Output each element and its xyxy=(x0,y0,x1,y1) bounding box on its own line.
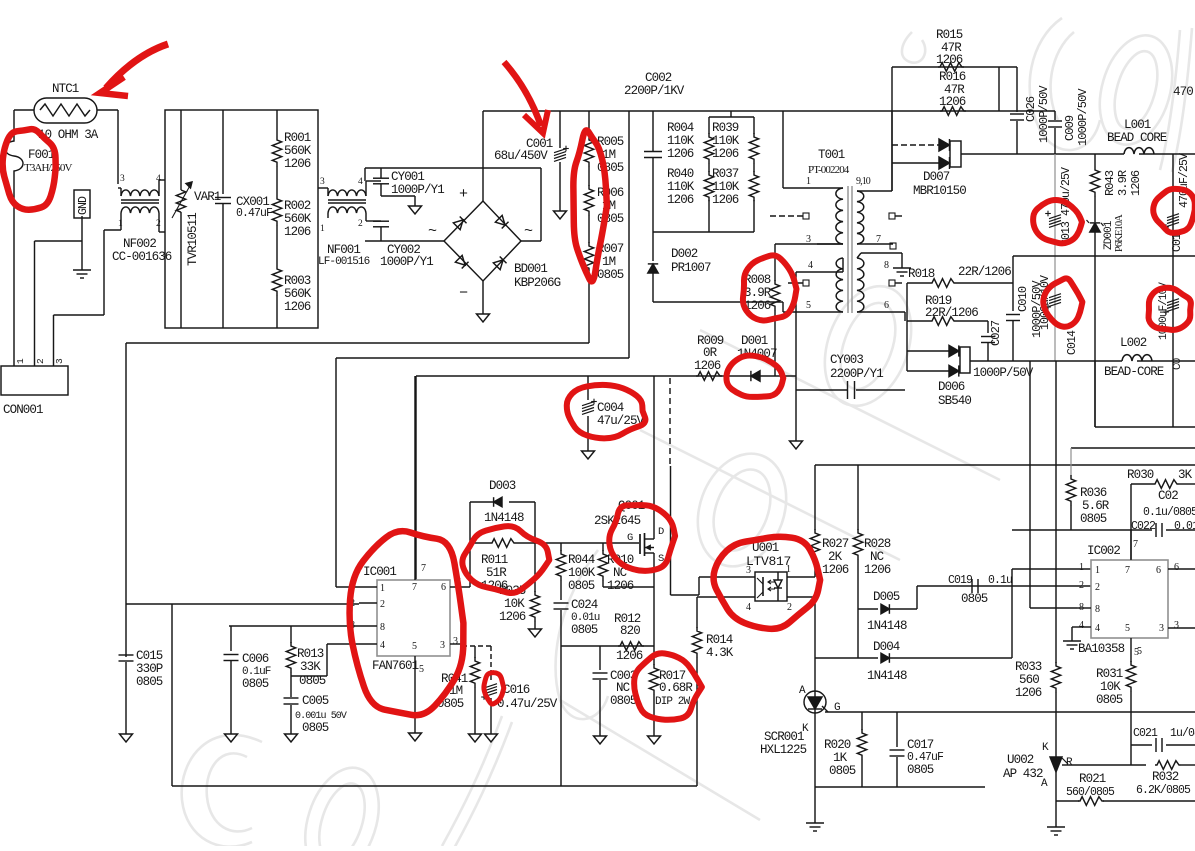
svg-text:CY003: CY003 xyxy=(830,353,863,367)
snubber rail lower xyxy=(891,67,893,191)
svg-text:0.1u: 0.1u xyxy=(988,574,1012,587)
svg-text:C014: C014 xyxy=(1066,330,1079,355)
svg-text:820: 820 xyxy=(620,624,640,638)
svg-text:R018: R018 xyxy=(908,267,935,281)
connector CON001 xyxy=(1,366,68,395)
svg-text:CON001: CON001 xyxy=(3,403,43,417)
capacitor C014 xyxy=(1049,294,1061,298)
svg-text:R014: R014 xyxy=(706,633,733,647)
svg-text:C0: C0 xyxy=(1172,358,1184,370)
svg-text:C016: C016 xyxy=(503,683,530,697)
row C022 xyxy=(1012,529,1131,531)
svg-text:C024: C024 xyxy=(571,598,598,612)
svg-text:R013: R013 xyxy=(297,647,324,661)
col 1056 xyxy=(1055,361,1057,663)
svg-text:560K: 560K xyxy=(284,287,312,301)
capacitor C026 xyxy=(1016,67,1018,112)
capacitor C024 xyxy=(554,602,569,604)
svg-text:PR1007: PR1007 xyxy=(671,261,711,275)
svg-text:C026: C026 xyxy=(1024,96,1038,122)
bridge rectifier BD001 xyxy=(444,201,521,281)
gate row xyxy=(561,542,639,544)
svg-text:1K: 1K xyxy=(833,751,848,765)
svg-text:SB540: SB540 xyxy=(938,394,971,408)
svg-text:NC: NC xyxy=(870,550,884,564)
svg-text:0805: 0805 xyxy=(136,675,163,689)
wire ref xyxy=(1069,764,1146,766)
svg-text:1206: 1206 xyxy=(667,147,694,161)
AC rail top xyxy=(365,167,541,169)
svg-text:MBR10150: MBR10150 xyxy=(913,184,966,198)
red circle R008 xyxy=(743,255,797,320)
svg-text:1206: 1206 xyxy=(1015,686,1042,700)
resistor R037 xyxy=(753,168,755,172)
net GND label xyxy=(74,190,90,218)
ground SCR xyxy=(806,822,824,824)
svg-text:BEAD CORE: BEAD CORE xyxy=(1107,131,1167,145)
secondary gnd rail piece xyxy=(815,786,985,788)
wire NF002 pin2 to box xyxy=(158,222,160,232)
svg-text:NC: NC xyxy=(616,681,630,695)
resistor R013 xyxy=(290,626,292,643)
svg-text:2200P/Y1: 2200P/Y1 xyxy=(830,367,883,381)
svg-text:1000P/50V: 1000P/50V xyxy=(973,366,1034,380)
resistor R035 xyxy=(534,543,536,592)
wire pin3 xyxy=(775,243,843,245)
red circle C014 xyxy=(1043,278,1082,326)
AC rail right vertical xyxy=(540,168,542,241)
snubber rail upper xyxy=(892,66,999,68)
svg-text:0.01: 0.01 xyxy=(1174,520,1195,533)
svg-text:1206: 1206 xyxy=(712,193,739,207)
svg-text:1206: 1206 xyxy=(284,300,311,314)
red circle R017 xyxy=(634,653,702,719)
svg-text:R006: R006 xyxy=(597,186,624,200)
startup line from bus xyxy=(628,111,630,358)
wire NF002 pin4 to box xyxy=(158,180,160,188)
resistor R020 xyxy=(861,712,863,730)
svg-text:R039: R039 xyxy=(712,121,739,135)
red circle F001 xyxy=(3,129,56,210)
svg-text:0.1u/0805: 0.1u/0805 xyxy=(1143,506,1195,519)
red circle R011 xyxy=(462,526,549,593)
svg-text:560K: 560K xyxy=(284,212,312,226)
svg-text:R027: R027 xyxy=(822,537,849,551)
svg-text:NF002: NF002 xyxy=(123,237,156,251)
varistor VAR1 xyxy=(180,110,182,190)
svg-text:C006: C006 xyxy=(242,652,269,666)
svg-text:~: ~ xyxy=(524,223,533,240)
wire NF001 pin4 to cap rail xyxy=(365,181,367,188)
wire NF002 pin1 down xyxy=(120,222,122,230)
svg-text:1206: 1206 xyxy=(667,193,694,207)
svg-text:0805: 0805 xyxy=(597,268,624,282)
dashed stub xyxy=(669,378,671,466)
svg-text:D007: D007 xyxy=(923,170,950,184)
svg-text:HXL1225: HXL1225 xyxy=(760,743,807,757)
capacitor C004 xyxy=(587,376,589,400)
resistor R004 xyxy=(708,117,710,134)
diode D002 xyxy=(652,232,654,261)
resistor R008 xyxy=(774,244,776,281)
resistor R044 xyxy=(560,543,562,551)
svg-text:0R: 0R xyxy=(703,346,718,360)
capacitor CY001 xyxy=(380,168,382,178)
svg-text:L002: L002 xyxy=(1120,336,1147,350)
row 256 xyxy=(1013,255,1195,257)
red blob IC001 xyxy=(350,531,464,715)
resistor R041 xyxy=(474,646,476,658)
red circle C012 xyxy=(1148,288,1190,330)
svg-text:BA10358: BA10358 xyxy=(1078,642,1125,656)
svg-text:D004: D004 xyxy=(873,640,900,654)
svg-text:KBP206G: KBP206G xyxy=(514,276,561,290)
svg-text:R040: R040 xyxy=(667,167,694,181)
line filter NF002 xyxy=(121,190,159,196)
capacitor C015 xyxy=(125,654,127,657)
svg-text:R011: R011 xyxy=(481,553,508,567)
resistor R039 xyxy=(753,117,755,134)
clamp network rails xyxy=(709,116,754,118)
svg-text:1206: 1206 xyxy=(1129,170,1143,196)
svg-text:110K: 110K xyxy=(712,180,740,194)
IC001 pin stubs xyxy=(359,586,377,588)
svg-text:C027: C027 xyxy=(989,320,1003,346)
EMI filter box xyxy=(165,110,318,328)
svg-text:1206: 1206 xyxy=(284,157,311,171)
resistor R005 xyxy=(588,111,590,137)
svg-text:G: G xyxy=(627,532,633,544)
svg-text:2K: 2K xyxy=(828,550,843,564)
zener ZD001 xyxy=(1090,223,1100,232)
svg-text:AP 432: AP 432 xyxy=(1003,767,1043,781)
svg-text:SCR001: SCR001 xyxy=(764,730,804,744)
resistor R011 xyxy=(470,542,490,544)
svg-text:330P: 330P xyxy=(136,662,163,676)
capacitor C013 xyxy=(1054,154,1056,361)
wire to IC001 pin1 xyxy=(336,357,629,359)
svg-text:T001: T001 xyxy=(818,148,845,162)
svg-text:D002: D002 xyxy=(671,247,698,261)
svg-text:1000P/Y1: 1000P/Y1 xyxy=(391,183,444,197)
svg-text:560: 560 xyxy=(1019,673,1039,687)
svg-text:0805: 0805 xyxy=(829,764,856,778)
svg-text:51R: 51R xyxy=(486,566,507,580)
svg-text:470: 470 xyxy=(1173,85,1193,99)
capacitor C010 xyxy=(1012,283,1014,311)
svg-text:1000P/Y1: 1000P/Y1 xyxy=(380,255,433,269)
svg-text:9,10: 9,10 xyxy=(856,176,871,187)
wire pin4 ground column xyxy=(795,272,797,441)
svg-text:R016: R016 xyxy=(939,70,966,84)
svg-text:+: + xyxy=(459,186,468,203)
svg-text:C02: C02 xyxy=(1158,489,1178,503)
feedback row xyxy=(815,464,1195,466)
svg-text:110K: 110K xyxy=(667,180,695,194)
svg-text:0805: 0805 xyxy=(571,623,598,637)
svg-text:R003: R003 xyxy=(284,274,311,288)
red circle U001 xyxy=(714,537,821,629)
svg-text:DIP 2W: DIP 2W xyxy=(655,696,691,708)
svg-text:3.9R: 3.9R xyxy=(1116,170,1130,196)
svg-text:PT-002204: PT-002204 xyxy=(808,164,850,176)
svg-text:−: − xyxy=(459,285,468,302)
wire opto pin1 xyxy=(787,576,815,578)
svg-text:6.2K/0805: 6.2K/0805 xyxy=(1136,784,1191,797)
svg-text:110K: 110K xyxy=(712,134,740,148)
svg-text:R033: R033 xyxy=(1015,660,1042,674)
resistor R027 xyxy=(814,465,816,530)
svg-text:D006: D006 xyxy=(938,380,965,394)
resistor R040 xyxy=(708,168,710,172)
svg-text:C002: C002 xyxy=(645,71,672,85)
svg-text:3K: 3K xyxy=(1178,468,1193,482)
svg-text:~: ~ xyxy=(428,223,437,240)
capacitor C027 xyxy=(987,321,989,333)
wire pin2 sense xyxy=(126,603,359,605)
svg-text:D001: D001 xyxy=(741,334,768,348)
resistor R031 xyxy=(1130,638,1132,662)
svg-text:C021: C021 xyxy=(1133,727,1158,740)
svg-text:0805: 0805 xyxy=(1096,693,1123,707)
row 646 xyxy=(561,645,654,647)
wire opto pin4 xyxy=(697,596,755,598)
svg-text:R036: R036 xyxy=(1080,486,1107,500)
svg-text:NTC1: NTC1 xyxy=(52,82,79,96)
capacitor CX001 xyxy=(222,110,224,194)
svg-text:R030: R030 xyxy=(1127,468,1154,482)
secondary output row xyxy=(970,360,1122,362)
capacitor C0xx 470uF xyxy=(1172,154,1174,361)
capacitor C017 xyxy=(896,712,898,747)
svg-text:1N4148: 1N4148 xyxy=(867,619,907,633)
svg-text:4.3K: 4.3K xyxy=(706,646,734,660)
svg-text:1206: 1206 xyxy=(607,579,634,593)
row 448 xyxy=(1071,447,1195,449)
svg-text:R008: R008 xyxy=(744,273,771,287)
capacitor CY002 xyxy=(373,220,389,222)
red circle C0xx right xyxy=(1153,189,1195,233)
svg-text:1N4148: 1N4148 xyxy=(867,669,907,683)
capacitor C005 xyxy=(284,697,299,699)
fuse F001 xyxy=(5,132,23,180)
pin8 wire xyxy=(1030,607,1077,609)
svg-text:R001: R001 xyxy=(284,131,311,145)
wire D002 to T001 pin5 xyxy=(653,301,783,303)
svg-text:C017: C017 xyxy=(907,738,934,752)
wire CON001 pin1 to fuse xyxy=(13,180,15,366)
svg-text:0805: 0805 xyxy=(610,694,637,708)
svg-text:D: D xyxy=(658,526,664,538)
T001 pin7 terminal xyxy=(890,243,896,249)
svg-text:D005: D005 xyxy=(873,590,900,604)
svg-text:IC002: IC002 xyxy=(1087,544,1120,558)
svg-text:0.47u/25V: 0.47u/25V xyxy=(497,697,558,711)
svg-text:C022: C022 xyxy=(1131,520,1156,533)
svg-text:0805: 0805 xyxy=(568,579,595,593)
AC rail bottom-left xyxy=(365,240,444,242)
svg-text:10K: 10K xyxy=(1100,680,1121,694)
svg-text:1u/08: 1u/08 xyxy=(1170,727,1195,740)
svg-text:68u/450V: 68u/450V xyxy=(494,149,548,163)
svg-text:1M: 1M xyxy=(602,255,616,269)
svg-text:T3AH/250V: T3AH/250V xyxy=(24,162,72,174)
svg-text:0805: 0805 xyxy=(242,677,269,691)
resistor R036 xyxy=(1070,448,1072,476)
controller IC001 FAN7601 xyxy=(377,580,450,656)
capacitor C003 xyxy=(599,646,601,670)
wire pin6 to resistors xyxy=(904,312,906,321)
B+ bus xyxy=(483,110,1055,112)
svg-text:1206: 1206 xyxy=(616,649,643,663)
svg-text:R002: R002 xyxy=(284,199,311,213)
svg-text:5.6R: 5.6R xyxy=(1082,499,1110,513)
ground arrow CY001 xyxy=(381,195,415,197)
svg-text:IC001: IC001 xyxy=(363,565,396,579)
svg-text:C005: C005 xyxy=(302,694,329,708)
line filter NF001 xyxy=(328,190,366,196)
resistor R006 xyxy=(588,166,590,186)
op-amp IC002 BA10358 xyxy=(1091,560,1168,638)
svg-text:R044: R044 xyxy=(568,553,595,567)
resistor R001 xyxy=(276,110,278,136)
ground xyxy=(81,216,83,270)
svg-text:C009: C009 xyxy=(1063,115,1077,141)
svg-text:C019: C019 xyxy=(948,574,973,587)
svg-text:R037: R037 xyxy=(712,167,739,181)
bridge - ground xyxy=(482,281,484,314)
capacitor C006 xyxy=(230,626,232,651)
red circle Q001 xyxy=(609,505,675,571)
svg-text:0805: 0805 xyxy=(907,763,934,777)
red circle C004 xyxy=(567,385,646,438)
svg-text:U002: U002 xyxy=(1007,753,1034,767)
svg-text:560K: 560K xyxy=(284,144,312,158)
svg-text:LF-001516: LF-001516 xyxy=(318,256,370,268)
svg-text:1206: 1206 xyxy=(822,563,849,577)
red oval R005 R006 R007 xyxy=(573,130,607,281)
wire NTC to NF002 xyxy=(97,109,118,111)
svg-text:CY001: CY001 xyxy=(391,170,424,184)
svg-text:0805: 0805 xyxy=(302,721,329,735)
red circle C013 xyxy=(1033,200,1082,243)
red circle C016 xyxy=(484,673,504,704)
svg-text:100K: 100K xyxy=(568,566,596,580)
primary ground rail xyxy=(172,785,697,787)
wire NF001 pin2 xyxy=(365,218,367,221)
resistor R010 xyxy=(602,543,604,551)
svg-text:22R/1206: 22R/1206 xyxy=(958,265,1011,279)
svg-text:R004: R004 xyxy=(667,121,694,135)
svg-text:C010: C010 xyxy=(1016,286,1030,312)
svg-text:BD001: BD001 xyxy=(514,262,547,276)
svg-text:0.47uF: 0.47uF xyxy=(236,207,273,220)
wire opto pin2 xyxy=(787,596,815,598)
svg-text:GND: GND xyxy=(77,196,90,215)
resistor R043 xyxy=(1094,154,1096,166)
svg-text:0.68R: 0.68R xyxy=(659,681,693,695)
svg-text:CC-001636: CC-001636 xyxy=(112,250,172,264)
svg-text:FAN7601: FAN7601 xyxy=(372,659,419,673)
capacitor C012 xyxy=(1167,299,1179,303)
wire CON001 pin3 riser xyxy=(53,315,55,366)
svg-text:1206: 1206 xyxy=(712,147,739,161)
primary aux wire xyxy=(416,375,796,377)
svg-text:1206: 1206 xyxy=(499,610,526,624)
svg-text:470uF/25V: 470uF/25V xyxy=(1178,153,1191,208)
svg-text:TVR10511: TVR10511 xyxy=(186,213,200,266)
svg-text:BEAD-CORE: BEAD-CORE xyxy=(1104,365,1164,379)
red circle D001 xyxy=(726,356,783,397)
capacitor C016 xyxy=(490,675,492,680)
red arrow C001 xyxy=(504,62,541,126)
svg-text:R043: R043 xyxy=(1103,170,1117,196)
svg-text:NF001: NF001 xyxy=(327,243,360,257)
resistor R003 xyxy=(272,265,281,295)
wire drain aux to opto pin3 xyxy=(670,466,672,595)
svg-text:1206: 1206 xyxy=(284,225,311,239)
svg-text:33K: 33K xyxy=(300,660,321,674)
resistor R028 xyxy=(857,465,859,530)
svg-text:LTV817: LTV817 xyxy=(746,554,791,569)
capacitor C009 xyxy=(1054,111,1056,120)
svg-text:0805: 0805 xyxy=(961,592,988,606)
wire CON001 pin2 riser xyxy=(34,241,36,366)
svg-text:1000P/50V: 1000P/50V xyxy=(1076,88,1090,146)
IC002 stubs xyxy=(1076,568,1078,570)
svg-text:R015: R015 xyxy=(936,28,963,42)
svg-text:2200P/1KV: 2200P/1KV xyxy=(624,84,685,98)
svg-text:P6KE10A: P6KE10A xyxy=(1114,214,1125,252)
svg-text:L001: L001 xyxy=(1124,118,1151,132)
resistor R017 xyxy=(653,646,655,665)
svg-text:1000P/50V: 1000P/50V xyxy=(1037,85,1051,143)
optocoupler U001 LTV817 xyxy=(755,572,787,601)
bridge + output riser xyxy=(482,111,484,201)
wire pin8 xyxy=(229,625,359,627)
svg-text:R021: R021 xyxy=(1079,772,1106,786)
wire pin4 xyxy=(327,643,359,645)
svg-text:110K: 110K xyxy=(667,134,695,148)
svg-text:D003: D003 xyxy=(489,479,516,493)
red arrow NTC1 xyxy=(106,44,168,88)
ground pin8 xyxy=(901,253,903,268)
svg-text:3.9R: 3.9R xyxy=(744,286,772,300)
wire fuse top to NTC xyxy=(13,110,15,132)
wire box to NF001 xyxy=(318,187,328,189)
svg-text:10K: 10K xyxy=(504,597,525,611)
svg-text:1206: 1206 xyxy=(864,563,891,577)
svg-text:0805: 0805 xyxy=(1080,512,1107,526)
ground U002 xyxy=(1047,826,1065,828)
thermistor NTC1 xyxy=(34,98,97,123)
pin4 gnd xyxy=(1072,626,1077,628)
svg-text:R020: R020 xyxy=(824,738,851,752)
resistor R002 xyxy=(272,195,281,225)
svg-text:1N4148: 1N4148 xyxy=(484,511,524,525)
resistor R033 xyxy=(1051,662,1060,692)
svg-text:R031: R031 xyxy=(1096,667,1123,681)
svg-text:C015: C015 xyxy=(136,649,163,663)
resistor R014 xyxy=(696,597,698,628)
svg-text:F001: F001 xyxy=(28,148,55,162)
output frame xyxy=(1094,361,1096,427)
svg-text:R032: R032 xyxy=(1152,770,1179,784)
svg-text:C004: C004 xyxy=(597,401,624,415)
wire divider to left rail xyxy=(126,342,589,344)
pin3 dashed xyxy=(450,643,462,645)
T001 midtap terminals xyxy=(803,213,809,219)
